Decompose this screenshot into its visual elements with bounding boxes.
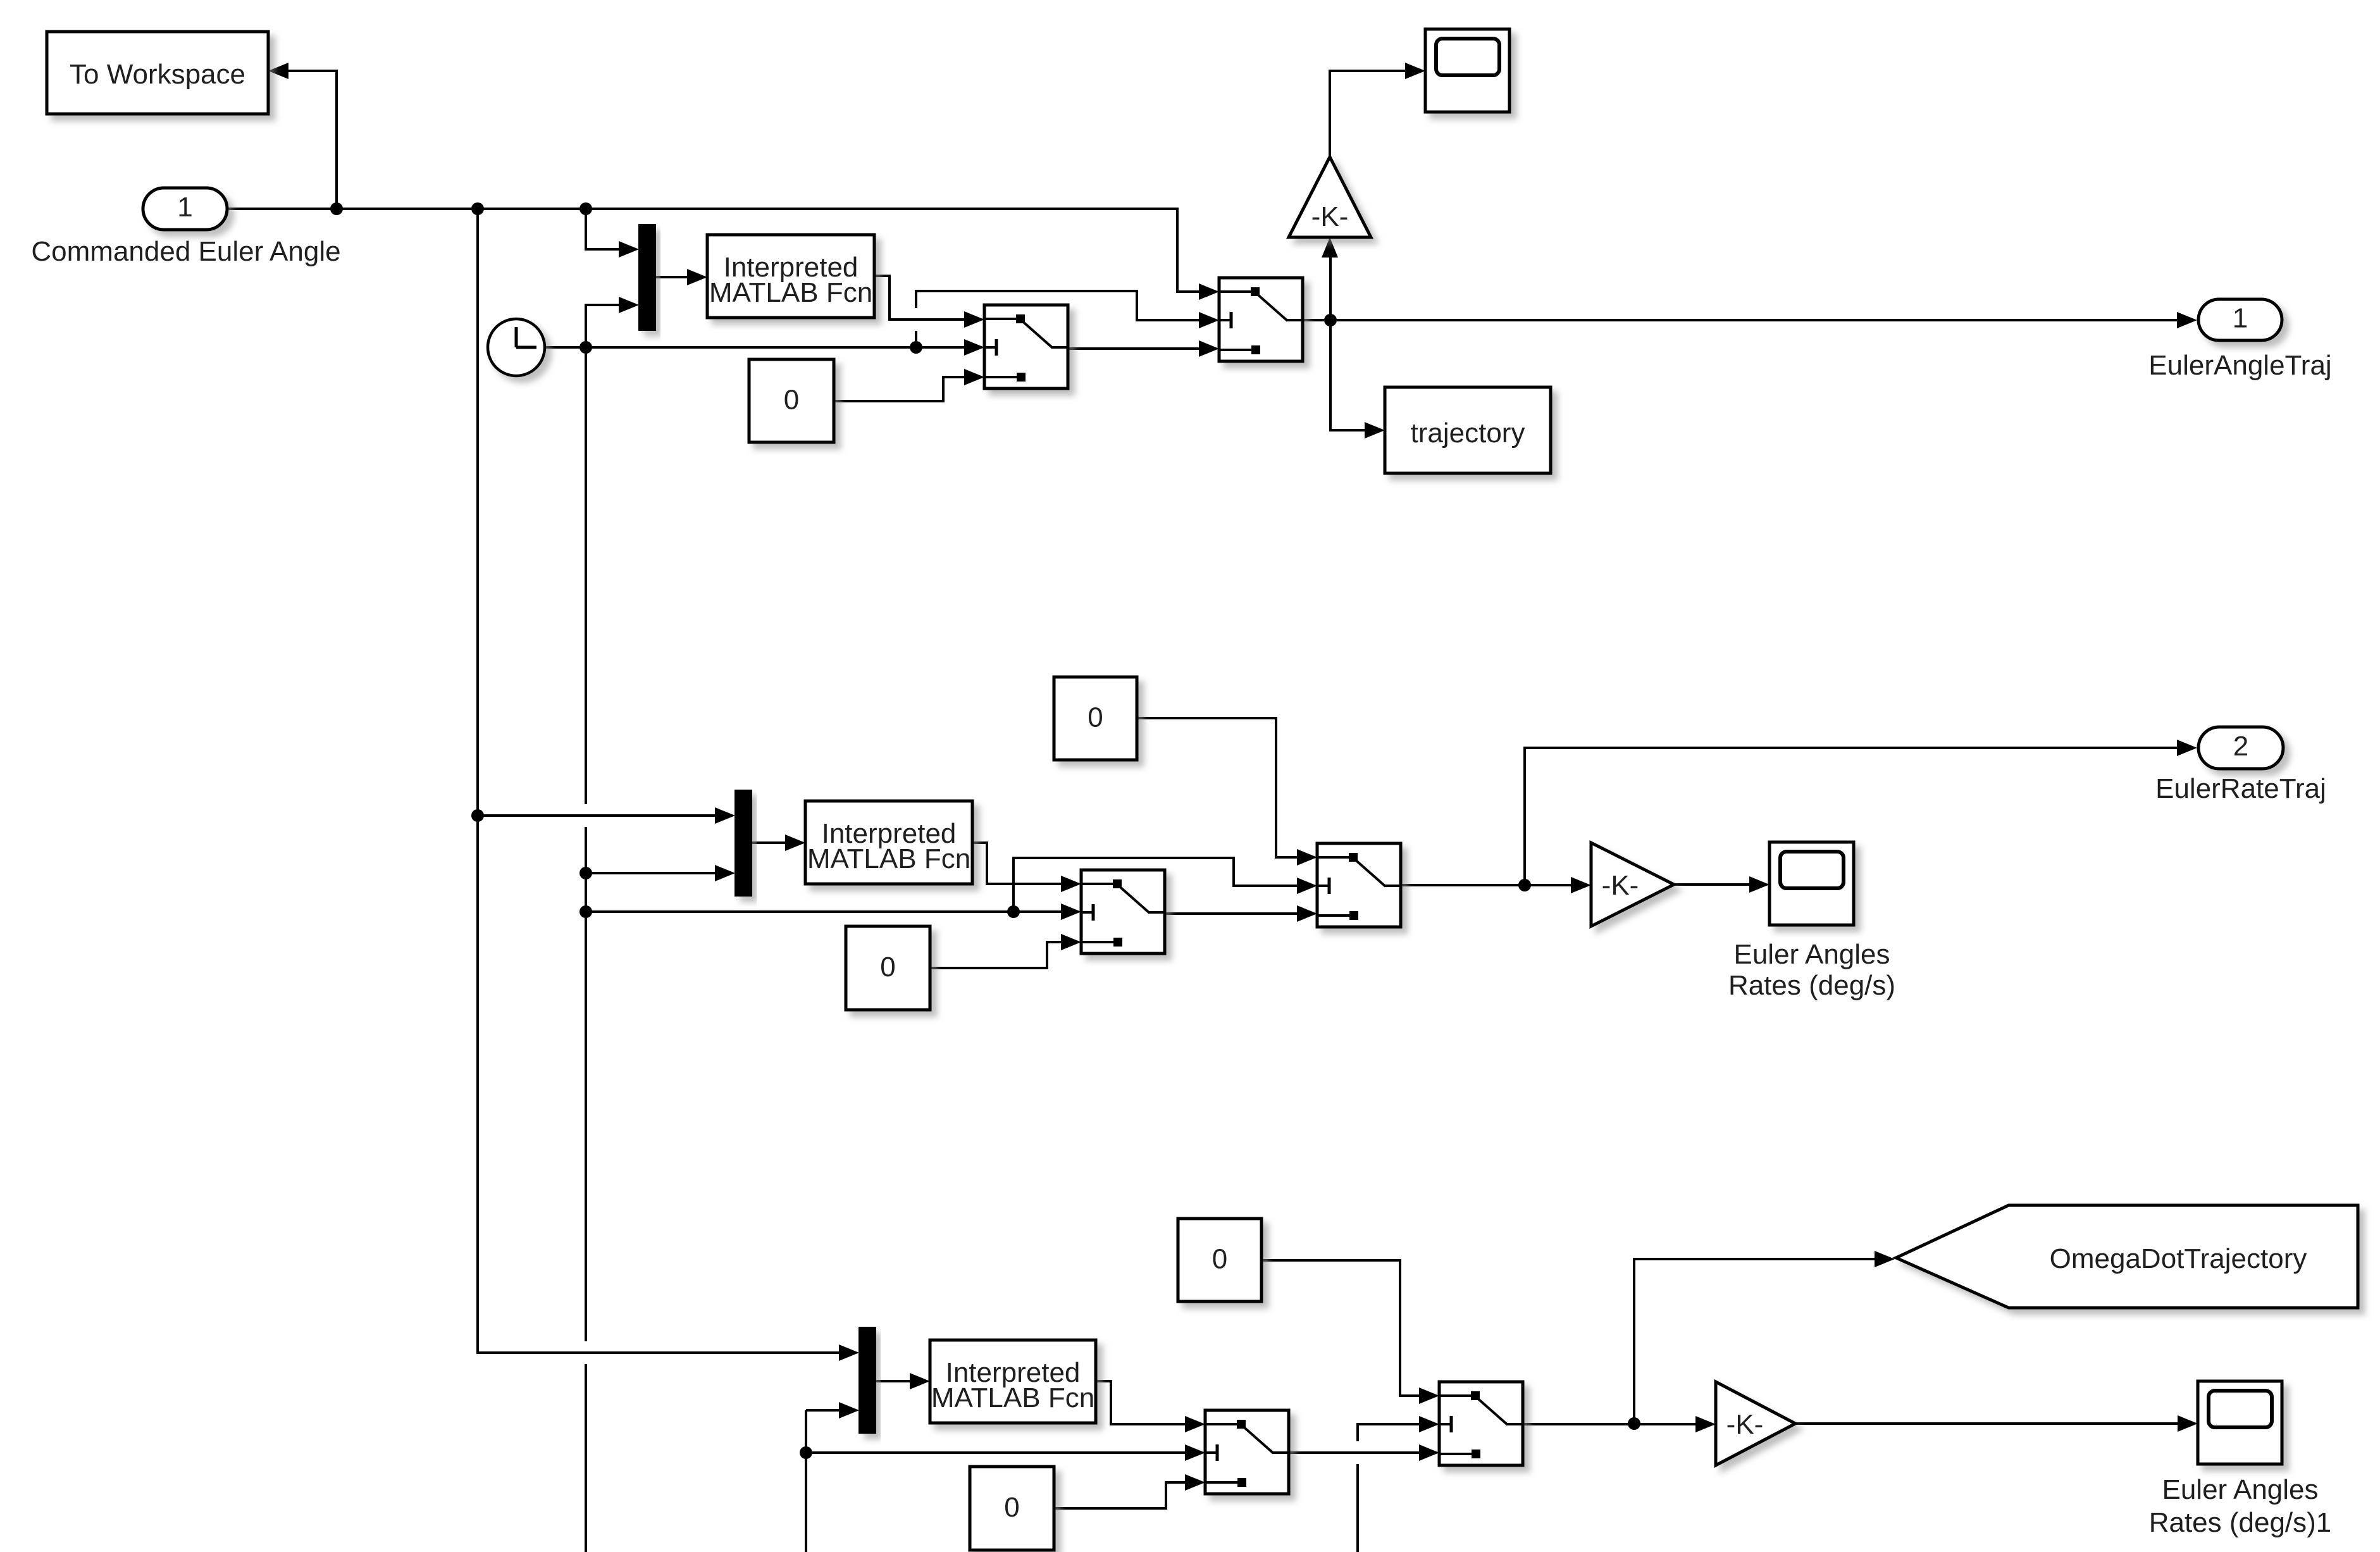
svg-text:EulerAngleTraj: EulerAngleTraj	[2148, 350, 2331, 381]
svg-text:-K-: -K-	[1311, 201, 1349, 232]
svg-text:Rates (deg/s)1: Rates (deg/s)1	[2149, 1507, 2332, 1538]
svg-text:1: 1	[2233, 303, 2248, 334]
svg-text:0: 0	[784, 385, 799, 416]
svg-text:0: 0	[1004, 1492, 1019, 1523]
svg-text:2: 2	[2233, 731, 2248, 762]
svg-text:EulerRateTraj: EulerRateTraj	[2155, 773, 2326, 804]
svg-text:1: 1	[177, 192, 192, 223]
svg-text:To Workspace: To Workspace	[70, 59, 245, 90]
svg-text:0: 0	[1212, 1244, 1227, 1275]
svg-text:0: 0	[1088, 702, 1103, 733]
svg-text:MATLAB Fcn: MATLAB Fcn	[807, 843, 970, 874]
svg-text:Rates (deg/s): Rates (deg/s)	[1728, 970, 1895, 1001]
svg-text:trajectory: trajectory	[1411, 418, 1525, 449]
svg-text:OmegaDotTrajectory: OmegaDotTrajectory	[2050, 1243, 2307, 1274]
svg-text:-K-: -K-	[1602, 870, 1639, 901]
svg-text:Euler Angles: Euler Angles	[2162, 1474, 2318, 1505]
svg-text:Commanded Euler Angle: Commanded Euler Angle	[31, 236, 340, 267]
svg-text:Euler Angles: Euler Angles	[1733, 939, 1890, 970]
svg-text:0: 0	[880, 952, 895, 983]
svg-text:-K-: -K-	[1726, 1409, 1764, 1440]
svg-text:MATLAB Fcn: MATLAB Fcn	[709, 277, 872, 308]
svg-text:MATLAB Fcn: MATLAB Fcn	[931, 1382, 1094, 1413]
